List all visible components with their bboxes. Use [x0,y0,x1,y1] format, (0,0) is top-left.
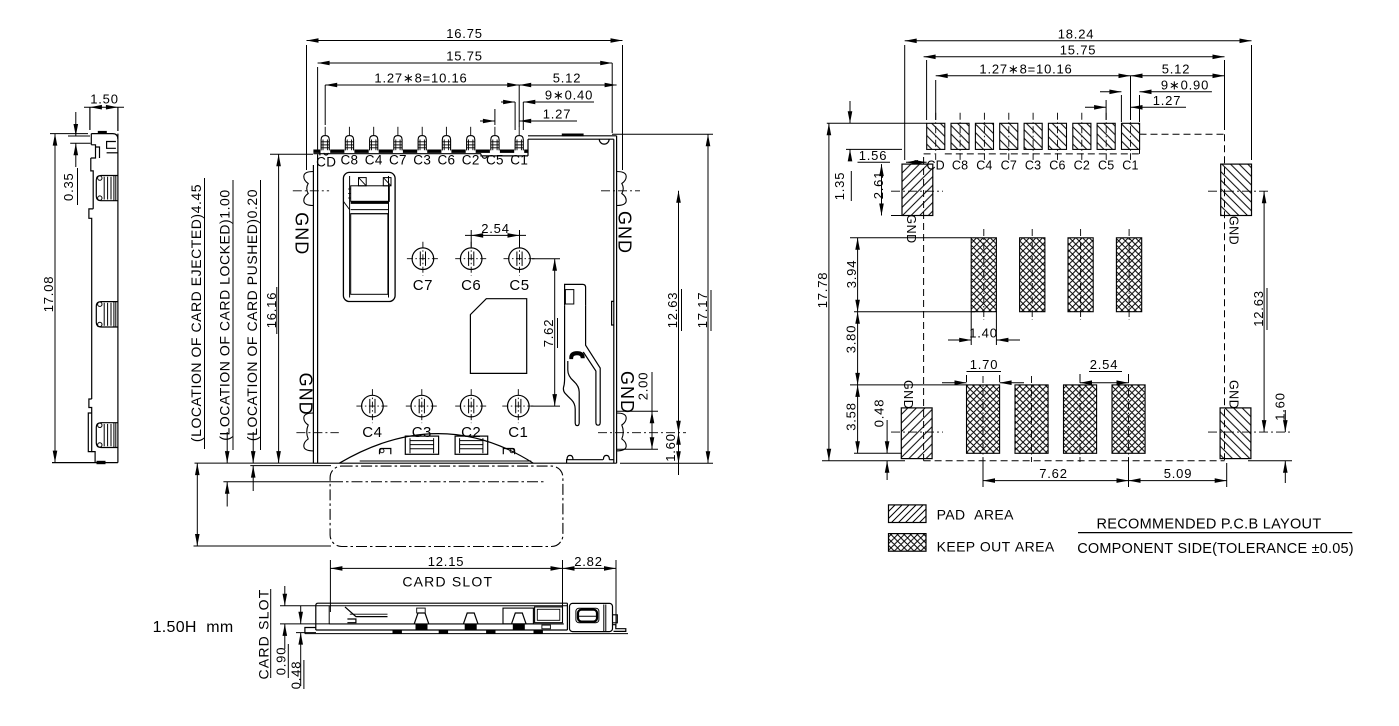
phantom card slot outline [330,466,563,546]
svg-text:1.56: 1.56 [859,148,888,163]
top view: card mouth arc [339,434,533,464]
svg-text:12.63: 12.63 [665,292,680,329]
svg-text:1.27∗8=10.16: 1.27∗8=10.16 [979,61,1072,76]
bottom view: black dashes on seating line [393,630,402,633]
dim 5.12 [519,84,616,86]
svg-text:2.54: 2.54 [1090,357,1119,372]
top view: line under arc [360,460,532,462]
svg-text:C3: C3 [413,153,431,168]
dim 2.61 [881,164,883,215]
top view: GND spring contact bottom-left [304,413,314,451]
svg-text:C4: C4 [362,424,382,441]
dim (LOCATION OF CARD EJECTED) arrows [196,463,198,546]
svg-text:7.62: 7.62 [1039,466,1068,481]
side view: left edge tab 2 [89,399,92,413]
dim 15.75 [317,67,319,150]
dim 17.17 [612,133,713,135]
side view: top hook outline [91,134,118,139]
centerline pcb GND bottom-left [891,431,943,433]
pcb bottom extension line [822,460,905,462]
dim 18.24 [904,45,906,160]
dim 1.50 (side view width) [89,107,91,130]
svg-text:2.00: 2.00 [636,372,651,401]
pcb: GND pad top-right [1221,164,1252,215]
dim 16.75 [306,45,308,170]
svg-text:GND: GND [292,212,312,255]
dim 2.54 (C6-C5) [470,230,472,247]
legend: keep out swatch [889,534,927,552]
svg-text:3.80: 3.80 [844,325,859,354]
dim 15.75 (pcb) [926,60,928,120]
svg-text:C7: C7 [389,153,407,168]
svg-text:(LOCATION OF CARD PUSHED)0.20: (LOCATION OF CARD PUSHED)0.20 [244,189,260,441]
top view: right wall [613,139,615,463]
top view: ejector lever arm [563,305,579,425]
side view: bottom black foot pad [97,461,106,464]
top view: bottom edge [313,462,616,464]
side view: connector right edge [117,134,119,463]
side view: left edge tab 1 [89,209,93,301]
svg-text:C7: C7 [1001,159,1017,173]
centerline GND bottom-left [296,432,338,434]
pcb: GND pad bottom-right [1220,408,1251,459]
svg-text:15.75: 15.75 [1060,42,1097,57]
svg-text:17.78: 17.78 [815,272,830,309]
dim 1.35 [827,122,927,124]
centerline pcb GND bottom-right [1208,431,1292,433]
dim 1.27*8=10.16 (pins) [324,85,326,125]
dim 7.62 (pcb) [982,458,984,487]
svg-text:(LOCATION OF CARD LOCKED)1.00: (LOCATION OF CARD LOCKED)1.00 [217,189,233,440]
contact C7 [407,242,439,276]
svg-text:5.09: 5.09 [1164,466,1193,481]
dim 0.90 (slot height) [280,605,316,607]
top view: ejector fold crescent [570,352,584,359]
svg-text:GND: GND [296,373,316,416]
svg-text:C8: C8 [952,159,968,173]
pcb: signal pads row [927,113,945,160]
svg-text:0.90: 0.90 [273,647,288,676]
svg-text:9∗0.90: 9∗0.90 [1161,77,1209,92]
pcb: keep out areas row 1 [971,229,996,320]
pcb: GND pad top-left [902,164,933,215]
top view: pin row [321,127,329,151]
bottom view: right latch block [570,603,613,631]
svg-text:1.27: 1.27 [543,107,572,122]
bottom view: inner slot [328,606,330,624]
svg-text:17.08: 17.08 [41,276,56,313]
dim 1.40 [970,312,972,345]
top view: CD pin corner detail [320,150,328,155]
centerline GND bottom-right [598,432,686,434]
top view: GND spring contact top-left [304,172,314,206]
side view: GND coil contact 3 [96,423,117,448]
svg-text:(LOCATION OF CARD EJECTED)4.45: (LOCATION OF CARD EJECTED)4.45 [188,184,204,442]
svg-text:16.75: 16.75 [446,26,483,41]
svg-text:C5: C5 [509,277,529,294]
svg-text:12.63: 12.63 [1251,290,1266,327]
svg-text:1.27∗8=10.16: 1.27∗8=10.16 [374,71,467,86]
top view: small wall tab right [612,301,614,325]
reference line C card locked [223,481,332,483]
svg-text:1.50H mm: 1.50H mm [153,619,234,636]
svg-text:C6: C6 [1049,159,1065,173]
svg-text:CARD SLOT: CARD SLOT [255,589,271,680]
legend: pad area swatch [889,505,927,523]
dim 7.62 (contact rows) [532,258,560,260]
svg-text:0.48: 0.48 [289,661,304,690]
side view: hook top filled bump [98,131,107,134]
dim 1.27*8=10.16 (pcb) [935,80,937,120]
svg-text:2.54: 2.54 [481,221,510,236]
svg-text:C8: C8 [340,153,358,168]
contact C1 [502,389,534,423]
top view: GND spring contact top-right [617,172,627,206]
svg-text:C3: C3 [1025,159,1041,173]
svg-text:GND: GND [1227,216,1241,245]
top view: contact window 2 [455,436,488,454]
dim 1.27 (pad pitch) [1105,100,1107,120]
svg-text:C1: C1 [510,153,528,168]
svg-text:0.35: 0.35 [61,172,76,201]
side view: GND coil contact 2 [96,302,117,327]
side view: left edge upper [91,158,93,209]
top view: thick shield edge tabs between pins [330,149,344,152]
top view: bottom-right inner ledge with tabs [567,460,614,464]
pcb: GND pad bottom-left [901,408,932,459]
svg-text:PAD AREA: PAD AREA [937,507,1015,523]
top view: top edge notch semicircle [482,156,487,158]
bottom view: right inner boxes [503,608,533,624]
dim 3.80 [857,312,859,385]
centerline GND top-left [293,190,329,192]
dim 3.94 [857,238,859,312]
top view: raised edge thick segment [562,133,584,136]
bottom view: main outline [316,603,568,630]
dim (LOCATION OF CARD LOCKED) arrows [226,432,228,463]
svg-text:2.82: 2.82 [574,554,603,569]
svg-text:C6: C6 [437,153,455,168]
contact C2 [455,389,487,423]
bottom view: seating plane and feet [305,633,628,635]
reference line B card pushed [250,465,331,467]
svg-text:C1: C1 [1122,159,1138,173]
svg-text:C5: C5 [486,153,504,168]
svg-text:C4: C4 [365,153,383,168]
contact C4 [356,389,388,423]
contact C3 [406,389,438,423]
svg-text:C3: C3 [412,424,432,441]
svg-text:1.27: 1.27 [1153,93,1182,108]
top view: contact window 1 [405,436,438,454]
contact C5 [504,242,536,276]
svg-text:GND: GND [904,214,918,243]
dim 9*0.90 (pad width) [1120,95,1122,122]
top view: card latch spring assembly [343,172,395,301]
top view: central island [470,299,526,374]
svg-text:C4: C4 [976,159,992,173]
svg-text:3.58: 3.58 [844,402,859,431]
svg-text:3.94: 3.94 [844,260,859,289]
svg-text:C5: C5 [1098,159,1114,173]
extension lines keepout rows [850,237,971,239]
svg-text:12.15: 12.15 [428,554,465,569]
reference line D card ejected [194,545,332,547]
svg-text:C6: C6 [461,277,481,294]
dim 5.12 (pcb) [1131,75,1225,77]
dim 0.35 (side view) [68,135,90,137]
svg-text:1.40: 1.40 [969,326,998,341]
bottom view: contact bumps [414,613,429,624]
centerline GND top-right [601,190,640,192]
svg-text:C7: C7 [413,277,433,294]
svg-text:CARD SLOT: CARD SLOT [402,574,493,590]
top view: top edge main [313,153,481,155]
svg-text:15.75: 15.75 [446,49,483,64]
dim 17.08 (side view height) [50,133,88,135]
top view: raised edge notch semicircle [599,139,609,144]
svg-text:GND: GND [1227,380,1241,409]
dim 0.48 [296,632,316,634]
dim 9*0.40 (pin width) [514,102,516,130]
dim 3.58 [857,385,859,453]
svg-text:18.24: 18.24 [1058,26,1095,41]
side view: left lower double band [88,413,91,452]
svg-text:17.17: 17.17 [695,292,710,329]
side view: bottom step and foot [92,452,95,463]
dim (LOCATION OF CARD PUSHED) arrows [252,432,254,463]
dim 2.00 [617,410,658,412]
svg-text:C2: C2 [462,153,480,168]
top view: spring anchor left [380,449,391,455]
dim 1.60 (pcb) [1284,410,1286,432]
side view: hook inner step [96,147,100,158]
top view: GND spring contact bottom-right [617,413,627,451]
dim 12.63 (top view) [678,191,680,433]
svg-text:CD: CD [316,155,336,170]
svg-text:GND: GND [901,380,915,409]
svg-text:7.62: 7.62 [541,319,556,348]
svg-text:COMPONENT SIDE(TOLERANCE ±0.05: COMPONENT SIDE(TOLERANCE ±0.05) [1077,541,1354,557]
svg-text:1.60: 1.60 [1272,392,1287,421]
svg-text:KEEP OUT AREA: KEEP OUT AREA [937,539,1055,555]
side view: GND coil contact 1 [96,176,117,201]
svg-text:5.12: 5.12 [1162,61,1191,76]
centerline pcb GND top-right [1208,190,1270,192]
svg-text:GND: GND [615,211,635,254]
dim 1.60 (top view) [678,433,680,475]
dim 2.82 [563,567,617,569]
dim 12.15 [329,560,331,612]
svg-text:C2: C2 [1074,159,1090,173]
dim 0.48 (pcb) [886,420,888,453]
svg-text:5.12: 5.12 [553,71,582,86]
dim 5.09 (pcb) [1129,480,1227,482]
svg-text:C1: C1 [508,424,528,441]
contact C6 [455,242,487,276]
top view: top edge step at C5 [481,154,487,156]
top view: left wall [312,165,314,463]
bottom view: left inner details [345,607,388,617]
pcb: keep out areas row 2 [967,376,1000,462]
svg-text:9∗0.40: 9∗0.40 [545,88,593,103]
side view: hook inner lip [107,142,116,149]
dim 12.63 (pcb) [1263,191,1265,432]
top view: spring anchor right [503,449,514,455]
svg-text:RECOMMENDED P.C.B LAYOUT: RECOMMENDED P.C.B LAYOUT [1096,517,1321,533]
svg-text:GND: GND [617,371,637,414]
dim 17.78 [828,123,830,461]
svg-text:1.60: 1.60 [663,433,678,462]
svg-text:2.61: 2.61 [871,171,886,200]
pcb: dashed body outline [923,157,925,461]
svg-text:1.50: 1.50 [90,92,119,107]
top view: ejector lever hook [565,284,586,305]
side view: bottom edge [52,462,118,464]
centerline pcb GND top-left [891,190,943,192]
svg-text:1.70: 1.70 [970,357,999,372]
reference line A body bottom extension [195,462,315,464]
svg-text:0.48: 0.48 [872,399,887,428]
side view: left edge mid [91,301,93,399]
top view: right raised edge [528,135,617,137]
dim 1.27 (pin pitch) [494,109,496,125]
svg-text:1.35: 1.35 [832,172,847,201]
